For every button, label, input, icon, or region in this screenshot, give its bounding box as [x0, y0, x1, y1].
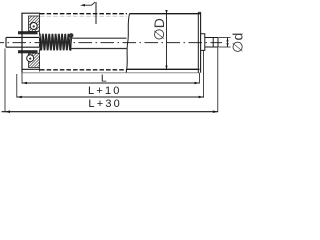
bearing ball top — [30, 23, 37, 30]
dimension line d (vertical with arrows) — [227, 38, 229, 48]
labyrinth seal bottom (dark band) — [18, 50, 38, 53]
tube bottom ghost line — [22, 72, 200, 74]
tube top ghost line — [40, 15, 127, 17]
dimension line L+30 — [2, 111, 218, 113]
extension line tube left below — [21, 73, 23, 84]
svg-text:L+30: L+30 — [88, 98, 122, 110]
ball top center dot — [33, 25, 35, 27]
inner shaft top line after spring — [71, 37, 127, 39]
svg-text:∅d: ∅d — [231, 33, 245, 53]
svg-text:L: L — [101, 73, 107, 85]
inner shaft bottom line after spring — [71, 48, 127, 50]
tube top hidden line (dashed) — [40, 13, 127, 15]
shaft left segment — [6, 37, 39, 47]
housing bottom edge — [22, 68, 40, 70]
extension line tube right below — [198, 73, 200, 84]
extension line L+30 right — [217, 48, 219, 113]
ball bottom center dot — [29, 58, 31, 60]
tube bottom hidden line (dashed) — [40, 69, 127, 71]
bearing bottom (hatched block) — [29, 53, 40, 67]
extension line L+10 right — [203, 50, 205, 97]
tube right end face — [197, 12, 199, 72]
end cap boss — [201, 34, 205, 51]
bearing ball bottom — [27, 55, 34, 62]
shaft groove (snap ring) — [212, 38, 214, 48]
labyrinth seal top (dark band) — [18, 31, 38, 34]
tube left end face — [21, 13, 23, 73]
extension line L+30 left — [4, 49, 6, 113]
center line (roller axis, dash-dot) — [0, 42, 222, 44]
dimension line D (vertical) — [166, 11, 168, 70]
weld callout arrow — [85, 2, 96, 5]
bearing top (hatched block) — [29, 16, 40, 31]
shaft right segment — [205, 38, 218, 48]
weld callout vertical line — [95, 2, 97, 24]
tube top outline right of break — [130, 13, 201, 15]
spring (coil zigzag) — [40, 34, 72, 51]
end cap face — [200, 12, 202, 72]
svg-text:∅D: ∅D — [151, 18, 167, 40]
extension line L+10 left — [16, 74, 18, 98]
extension lines for d — [219, 38, 231, 48]
end cap top lip — [198, 11, 200, 13]
housing top edge — [22, 12, 40, 14]
spring rear helix — [41, 34, 70, 51]
dimension line L — [22, 82, 200, 84]
spring wire end loop — [70, 34, 73, 37]
dimension line L+10 — [17, 96, 204, 98]
spring end bars — [40, 33, 71, 50]
tube break line (S curve) — [126, 14, 129, 73]
tube bottom outline right of break — [127, 68, 200, 70]
svg-text:L+10: L+10 — [88, 85, 122, 97]
tube end hidden vertical (dashed) — [39, 14, 41, 73]
